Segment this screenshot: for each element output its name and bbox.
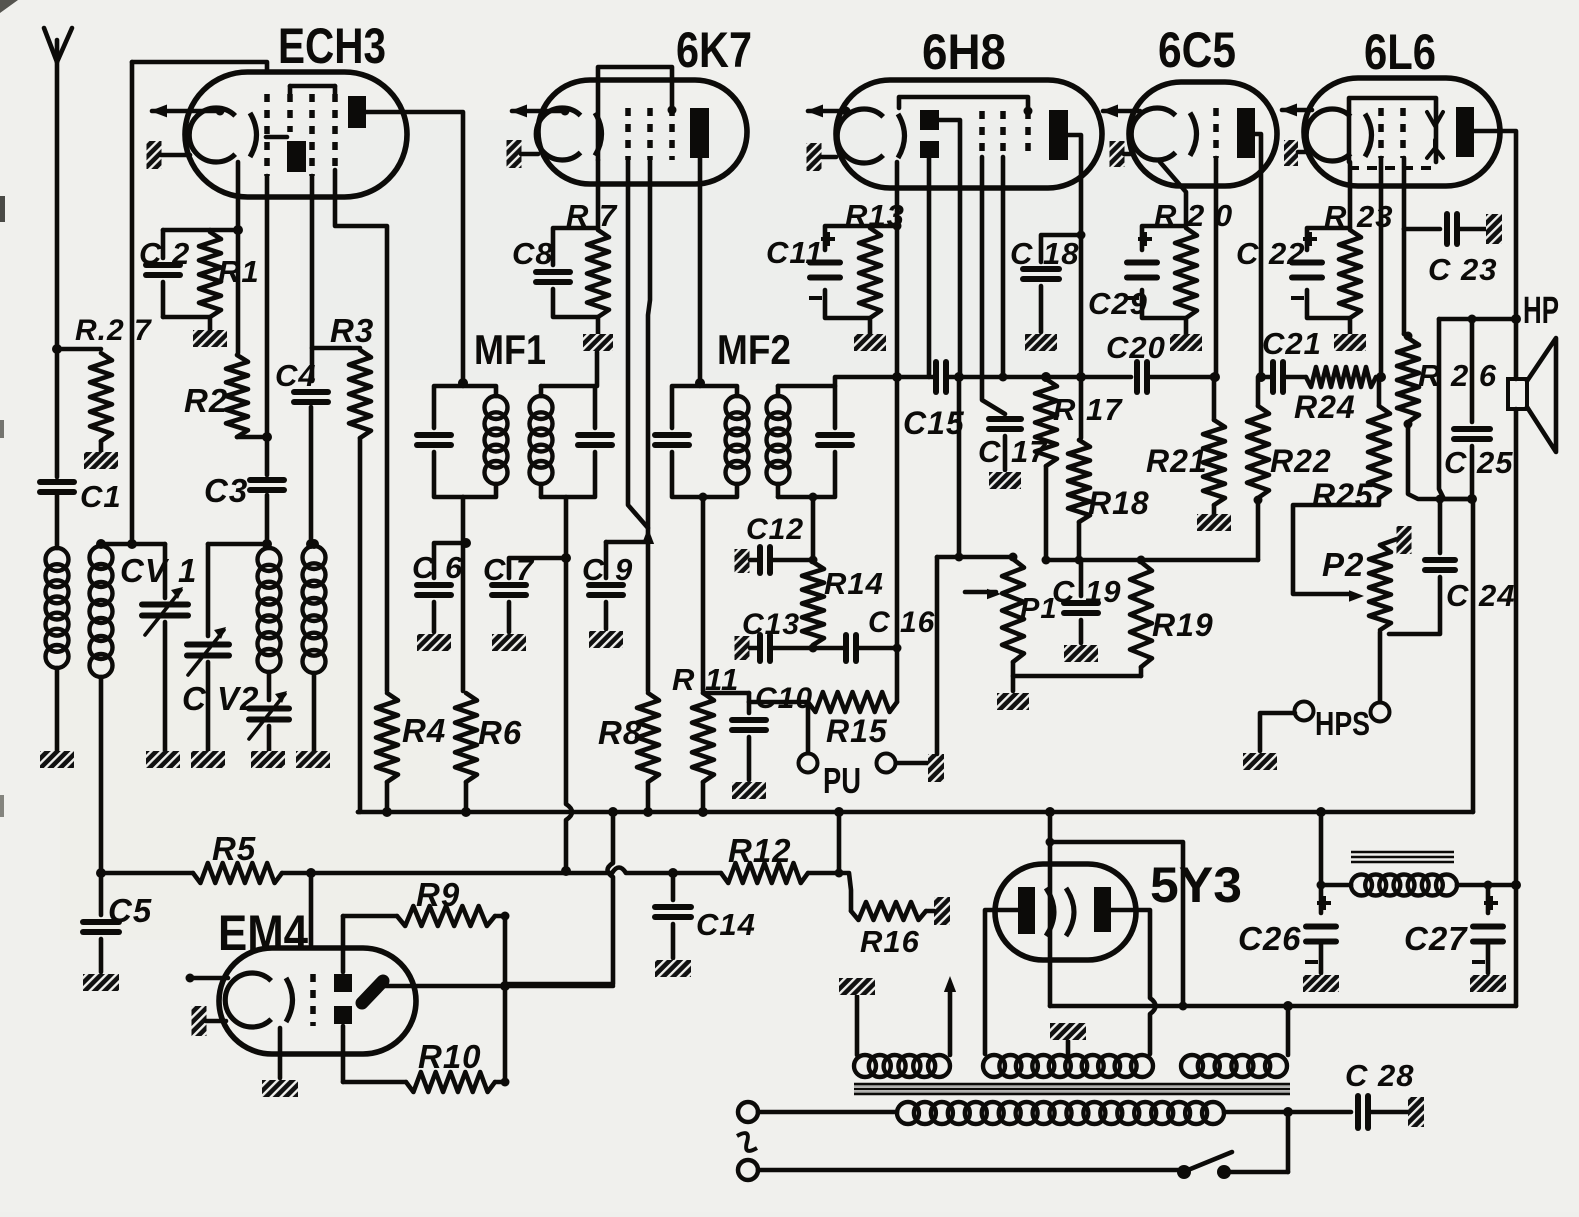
- capacitor C9: [604, 542, 609, 578]
- resistor R3: [312, 346, 360, 351]
- svg-text:C V2: C V2: [182, 680, 259, 717]
- capacitor C21 series: [1270, 362, 1276, 392]
- wire 6L6 grid pin down: [1379, 158, 1384, 377]
- wire R11 to bus: [701, 782, 706, 812]
- ground HT center tap: [1050, 1023, 1086, 1040]
- wire R22 bottom to rail: [1256, 498, 1261, 560]
- 6L6 grid columns: [1378, 108, 1384, 158]
- ground under C7: [492, 634, 526, 651]
- capacitor C15 series: [933, 362, 939, 392]
- resistor R27: [57, 347, 101, 352]
- terminal PU left: [806, 702, 811, 753]
- wire grid line 897 to C15: [897, 375, 935, 380]
- filter choke laminations: [1351, 851, 1454, 853]
- svg-text:R21: R21: [1146, 443, 1208, 479]
- wire grid segment to CV1: [101, 542, 165, 547]
- wire antenna lead down: [55, 62, 60, 349]
- trimmer capacitor padder: [249, 706, 289, 712]
- power transformer heater winding: [854, 1055, 876, 1077]
- P1 wiper arrow: [965, 590, 996, 595]
- svg-text:R22: R22: [1270, 443, 1332, 479]
- wire EM4 target to R9: [341, 916, 346, 972]
- svg-text:C21: C21: [1262, 326, 1322, 361]
- 5Y3 anode plate left: [1018, 887, 1035, 934]
- svg-text:R 17: R 17: [1053, 392, 1123, 427]
- svg-text:C 28: C 28: [1345, 1058, 1414, 1093]
- MF1 primary coil: [463, 386, 496, 396]
- capacitor C25: [1470, 319, 1475, 422]
- tube 5Y3 envelope: [995, 864, 1136, 960]
- ground under R21: [1212, 505, 1217, 514]
- wire R24 to 6L6 grid: [1376, 375, 1381, 380]
- wire 6H8 cathode pin down: [895, 162, 900, 702]
- resistor R10: [406, 1072, 495, 1092]
- resistor R12: [721, 863, 808, 883]
- node antenna/R27 tap: [52, 344, 62, 354]
- wire switch to primary: [1229, 1170, 1288, 1175]
- wire choke right to C27: [1457, 883, 1516, 888]
- svg-text:R24: R24: [1294, 389, 1356, 425]
- mains terminal 2: [738, 1160, 758, 1180]
- wire primary right to C28: [1224, 1110, 1351, 1115]
- svg-text:R6: R6: [478, 714, 522, 751]
- svg-text:C5: C5: [108, 892, 152, 929]
- wire R6 to bus: [464, 782, 469, 812]
- potentiometer P1: [1002, 559, 1024, 662]
- wire MF2 secondary bottom to detector: [811, 497, 816, 556]
- resistor R7: [587, 230, 609, 317]
- tube 6H8 envelope: [836, 80, 1102, 188]
- transformer laminations: [854, 1083, 1290, 1086]
- wire EM4 grid from AVC bus: [309, 873, 314, 946]
- svg-text:PU: PU: [823, 760, 861, 801]
- ground under R13: [868, 318, 873, 334]
- EM4 grid column: [310, 974, 316, 1026]
- 6H8 grid columns: [979, 111, 985, 157]
- capacitor C8: [553, 228, 598, 265]
- 6L6 cathode: [1306, 109, 1350, 161]
- filter choke winding: [1351, 875, 1372, 896]
- capacitor C5: [99, 873, 104, 915]
- svg-text:R15: R15: [826, 713, 888, 749]
- svg-text:R1: R1: [218, 254, 260, 289]
- MF2 secondary coil: [776, 386, 781, 396]
- capacitor C16: [813, 646, 845, 651]
- wire MF1 secondary top to ground hatch: [595, 352, 600, 386]
- wire 6C5 anode down: [1255, 134, 1261, 377]
- node MF2 primary top: [695, 378, 705, 388]
- bus B+ bottom: [1050, 1004, 1516, 1009]
- capacitor C10: [749, 700, 808, 705]
- 6H8 cathode: [837, 109, 883, 163]
- ground under C18: [1025, 334, 1057, 351]
- wire HP line: [1439, 317, 1516, 322]
- capacitor C29 electrolytic: [1142, 226, 1186, 250]
- capacitor C19: [1079, 560, 1084, 596]
- resistor R20: [1175, 228, 1197, 318]
- wire EM4 anode row: [385, 984, 613, 989]
- hatch block P2: [1397, 526, 1412, 554]
- svg-text:C 7: C 7: [483, 552, 535, 587]
- svg-text:C8: C8: [512, 236, 554, 271]
- ground under C14: [655, 960, 691, 977]
- HT winding center tap: [1066, 1041, 1071, 1055]
- capacitor C6: [434, 543, 466, 578]
- wire MF1 primary bottom to R6: [461, 497, 466, 691]
- svg-text:R9: R9: [416, 876, 460, 913]
- svg-text:C11: C11: [766, 235, 824, 270]
- wire R10 left to EM4: [343, 1080, 406, 1085]
- node MF1 primary top: [458, 378, 468, 388]
- wire 5Y3 filament loop: [1050, 842, 1183, 1006]
- svg-text:R25: R25: [1312, 477, 1374, 513]
- tube 6L6 envelope: [1304, 78, 1500, 186]
- 6C5 top cap arrow: [1103, 109, 1140, 114]
- power transformer 5V winding: [1181, 1055, 1203, 1077]
- svg-text:C1: C1: [80, 479, 122, 514]
- wire 6L6 screen pin down: [1402, 158, 1407, 229]
- ECH3 grid tie bar: [290, 84, 335, 89]
- wire 6H8 anode down: [1067, 135, 1081, 438]
- wire 6H8 diode2 pin to C15: [927, 158, 932, 377]
- svg-text:HP: HP: [1523, 290, 1559, 332]
- svg-text:C20: C20: [1106, 330, 1166, 365]
- ECH3 grid column g4: [332, 94, 338, 170]
- MF2 primary coil: [700, 386, 737, 396]
- svg-text:6H8: 6H8: [922, 24, 1006, 80]
- capacitor C4: [294, 389, 328, 395]
- capacitor C27 electrolytic: [1486, 885, 1491, 913]
- wire 6L6 cathode pin to R23: [1348, 162, 1353, 228]
- wire detector line C15 to C20: [959, 375, 1131, 380]
- svg-text:C13: C13: [742, 608, 800, 641]
- svg-text:ECH3: ECH3: [278, 18, 386, 74]
- svg-text:R4: R4: [402, 712, 446, 749]
- wire C26 from bus: [1319, 812, 1324, 913]
- svg-text:P2: P2: [1322, 546, 1364, 583]
- 6H8 inner loop wire: [899, 97, 1028, 108]
- EM4 target square 2: [334, 1006, 352, 1024]
- wire detector line y377: [947, 375, 959, 380]
- ground under R23: [1348, 318, 1353, 334]
- wire R26 bottom to junction: [1408, 422, 1472, 499]
- capacitor C11 electrolytic: [825, 226, 870, 250]
- hatch block PU return: [896, 761, 928, 766]
- 6H8 heater ground: [807, 143, 822, 171]
- wire 6K7 cathode pin to R7: [596, 160, 601, 228]
- wire ECH3 g4 pin to R4: [335, 170, 387, 691]
- wire P2 bottom to HPS: [1378, 632, 1383, 702]
- P2 wiper arrow: [1349, 590, 1364, 601]
- resistor R18: [1068, 440, 1090, 522]
- bus AVC horizontal: [101, 871, 193, 876]
- 6C5 heater ground: [1110, 141, 1125, 167]
- 6C5 cathode: [1131, 108, 1175, 160]
- wire speaker line down: [1514, 319, 1519, 379]
- MF2 primary tuning capacitor: [672, 386, 700, 428]
- svg-text:MF2: MF2: [717, 326, 791, 373]
- wire ECH3 hexode anode to MF1: [366, 112, 463, 379]
- hatch block R16: [934, 897, 950, 925]
- tube ECH3 envelope: [185, 72, 407, 197]
- resistor R4: [376, 693, 398, 782]
- bus AVC mid: [282, 871, 612, 876]
- wire from ECH3 top loop down: [130, 62, 135, 544]
- wire 6K7 g3 pin down to R8: [648, 160, 650, 691]
- resistor R2: [226, 355, 248, 437]
- wire R18 bottom: [1077, 522, 1082, 560]
- wire R8 to bus: [646, 782, 651, 812]
- svg-text:C14: C14: [696, 907, 756, 942]
- wire link bus to EM4 anode line: [608, 807, 618, 817]
- wire R17 bottom to y560 rail: [1044, 466, 1049, 560]
- EM4 deflection wedge: [362, 981, 383, 1003]
- ground under CV2: [191, 751, 225, 768]
- tube 6C5 envelope: [1129, 82, 1277, 186]
- resistor R11: [692, 693, 714, 782]
- wire 6L6 anode to HP: [1474, 131, 1516, 319]
- MF1 primary tuning capacitor: [434, 386, 463, 428]
- ground under P1: [997, 693, 1029, 710]
- variable capacitor CV1: [163, 544, 168, 598]
- mains squiggle: [737, 1133, 757, 1151]
- wire R25 bottom loop to P2 wiper: [1293, 498, 1379, 594]
- capacitor C20 series: [1134, 362, 1140, 392]
- ground under L1: [40, 751, 74, 768]
- svg-text:C 23: C 23: [1428, 252, 1497, 287]
- hatch block C28: [1369, 1110, 1408, 1115]
- svg-text:R 2 6: R 2 6: [1418, 358, 1497, 393]
- terminal HPS left: [1295, 702, 1314, 721]
- ground above MF1 secondary: [583, 334, 613, 351]
- 6K7 top jumper: [598, 67, 672, 160]
- svg-text:C 22: C 22: [1236, 236, 1305, 271]
- antenna: [44, 28, 72, 62]
- wire ECH3 cathode pin: [236, 162, 241, 353]
- svg-text:R12: R12: [728, 832, 792, 869]
- wire 6C5 grid pin down: [1214, 158, 1219, 377]
- wire MF1 secondary bottom AVC: [564, 497, 569, 804]
- node L2 top: [99, 544, 104, 546]
- wire P2 top to hatch: [1380, 539, 1397, 545]
- wire 5Y3 left anode to HT winding: [985, 910, 1018, 1054]
- resistor R17: [1035, 379, 1057, 466]
- EM4 input wire: [189, 976, 228, 981]
- 6L6 heater ground: [1284, 140, 1298, 166]
- resistor R15: [808, 692, 897, 712]
- resistor R9: [343, 914, 397, 919]
- hatch block C23: [1486, 214, 1502, 244]
- capacitor C7: [509, 558, 566, 578]
- 6K7 anode plate: [690, 108, 709, 158]
- svg-text:C 18: C 18: [1010, 236, 1079, 271]
- resistor R14: [809, 556, 818, 565]
- svg-text:R5: R5: [212, 830, 256, 867]
- ground under padder: [251, 751, 285, 768]
- 6K7 grid columns: [625, 108, 631, 160]
- ground under R27: [99, 441, 104, 452]
- oscillator coil L4: [309, 539, 319, 549]
- svg-text:C 19: C 19: [1052, 574, 1121, 609]
- capacitor C1: [55, 349, 60, 477]
- resistor R6: [455, 693, 477, 782]
- MF2 secondary capacitor: [778, 386, 835, 428]
- wire 5Y3 right anode down: [1111, 910, 1150, 998]
- wire 6H8 diode1 via top: [939, 120, 960, 377]
- wire 6K7 g2 pin down: [628, 160, 648, 528]
- 6C5 grid column: [1213, 108, 1219, 158]
- 6L6 anode plate: [1456, 107, 1474, 157]
- rail y560: [1046, 558, 1258, 563]
- wire 6C5 cathode pin to R20: [1160, 162, 1186, 226]
- svg-text:HPS: HPS: [1315, 705, 1370, 742]
- node C9 tap with arrow: [642, 528, 654, 544]
- MF1 secondary capacitor: [541, 386, 595, 428]
- svg-text:C 16: C 16: [868, 606, 935, 639]
- wire HPS to ground: [1260, 713, 1295, 751]
- 5Y3 filament arcs: [1046, 888, 1074, 936]
- svg-text:C10: C10: [755, 682, 813, 715]
- ECH3 grid column g1: [264, 94, 270, 176]
- wire MF2 secondary top to 6H8 grid line: [835, 377, 897, 386]
- capacitor C24: [1438, 499, 1443, 553]
- svg-text:C12: C12: [746, 513, 804, 546]
- resistor R21: [1210, 373, 1219, 382]
- wire HP line left drop: [1439, 319, 1472, 499]
- 6H8 diode plate 1: [920, 110, 939, 130]
- svg-text:R3: R3: [330, 312, 374, 349]
- resistor R5: [193, 863, 282, 883]
- svg-text:R16: R16: [860, 924, 920, 959]
- heater winding arrow: [948, 986, 953, 1055]
- ECH3 grid column g2: [287, 94, 293, 132]
- resistor R24: [1284, 375, 1306, 380]
- svg-text:C29: C29: [1088, 286, 1148, 321]
- ECH3 anode step wire: [266, 135, 287, 140]
- ground under R1: [208, 317, 213, 330]
- potentiometer P2: [1369, 545, 1391, 630]
- ground under C5: [83, 974, 119, 991]
- svg-text:C 2: C 2: [139, 236, 190, 271]
- wire choke left to C26 node: [1321, 883, 1351, 888]
- svg-text:C3: C3: [204, 472, 248, 509]
- wire R3 bottom to bus: [358, 438, 360, 812]
- capacitor C3: [265, 437, 270, 475]
- wire R2 bottom to osc grid: [237, 435, 267, 440]
- 6K7 cathode: [536, 108, 580, 160]
- bus B+ horizontal: [358, 810, 1473, 815]
- capacitor C26 electrolytic: [1306, 924, 1336, 930]
- svg-text:C27: C27: [1404, 920, 1468, 957]
- wire R19 bottom: [1139, 667, 1144, 676]
- ground under C27: [1470, 975, 1506, 992]
- svg-text:6C5: 6C5: [1158, 22, 1236, 78]
- capacitor C2: [163, 228, 210, 233]
- 6C5 anode plate: [1237, 108, 1255, 158]
- ground under C19: [1064, 645, 1098, 662]
- tube 6K7 envelope: [538, 80, 747, 184]
- wire 6H8 g pin to C17: [982, 157, 1005, 414]
- resistor R25: [1377, 377, 1382, 406]
- wire MF2 primary bottom to R11: [701, 497, 706, 691]
- wire P1 top feed: [957, 377, 962, 557]
- svg-text:CV 1: CV 1: [120, 552, 197, 589]
- ground under C10: [732, 782, 766, 799]
- 6H8 diode plate 2: [920, 141, 939, 158]
- 6H8 anode plate: [1049, 110, 1068, 160]
- wire C20 to 6C5 grid: [1148, 375, 1215, 380]
- wire PU hatch up to P1 line: [935, 557, 940, 754]
- wire R4 to bus: [385, 782, 390, 812]
- 6H8 top cap arrow: [808, 109, 846, 114]
- wire P1 bottom to R19 bottom: [1013, 674, 1141, 679]
- resistor R22: [1256, 377, 1261, 406]
- svg-text:C15: C15: [903, 405, 965, 441]
- node R14 bottom: [809, 644, 818, 653]
- wire ECH3 g1 pin down: [265, 176, 270, 437]
- ground above heater winding: [839, 978, 875, 995]
- wire R11 top to C10: [703, 691, 749, 696]
- svg-text:C 6: C 6: [412, 550, 463, 585]
- svg-text:R14: R14: [824, 566, 884, 601]
- capacitor C18: [1041, 235, 1081, 262]
- 6L6 beam marks: [1427, 112, 1443, 126]
- EM4 heater ground: [192, 1006, 207, 1036]
- 6L6 beam plate box: [1349, 98, 1436, 162]
- svg-text:C 25: C 25: [1444, 445, 1513, 480]
- speaker: [1508, 379, 1527, 409]
- ground under CV1: [146, 751, 180, 768]
- wire bus end to C25 junction: [1471, 499, 1476, 812]
- resistor R19: [1130, 562, 1152, 667]
- ground under C9: [589, 631, 623, 648]
- capacitor C12: [735, 549, 750, 573]
- wire screen to R26: [1402, 229, 1407, 334]
- resistor R23: [1339, 230, 1361, 318]
- ECH3 grid column g3: [309, 94, 315, 176]
- 6K7 top cap arrow: [512, 109, 565, 114]
- svg-text:C26: C26: [1238, 920, 1302, 957]
- capacitor C23: [1404, 227, 1440, 232]
- antenna coil L1: [55, 492, 60, 548]
- capacitor C14: [671, 873, 676, 900]
- resistor R26: [1397, 338, 1419, 422]
- ECH3 top cap arrow: [152, 109, 220, 114]
- EM4 cathode: [225, 973, 271, 1027]
- svg-text:MF1: MF1: [474, 326, 546, 373]
- ECH3 triode anode plate: [287, 141, 306, 172]
- svg-text:C 24: C 24: [1446, 578, 1515, 613]
- antenna coil L2 (secondary): [90, 546, 113, 569]
- svg-text:EM4: EM4: [218, 905, 308, 961]
- svg-text:R2: R2: [184, 382, 228, 419]
- mains terminal 1: [738, 1102, 758, 1122]
- svg-text:R8: R8: [598, 714, 642, 751]
- 5Y3 anode plate right: [1094, 887, 1111, 932]
- ground under C17: [989, 472, 1021, 489]
- ground under L4: [296, 751, 330, 768]
- capacitor C22 electrolytic: [1307, 228, 1350, 250]
- capacitor C13: [735, 636, 750, 660]
- oscillator coil L3: [262, 539, 272, 549]
- EM4 cathode pin down: [278, 1028, 283, 1078]
- svg-text:C4: C4: [275, 358, 317, 393]
- wire link busA to busB at 839: [837, 812, 842, 873]
- switch: [1177, 1165, 1191, 1179]
- terminal PU right: [877, 754, 896, 773]
- power transformer primary winding: [897, 1102, 919, 1124]
- EM4 target square 1: [334, 974, 352, 992]
